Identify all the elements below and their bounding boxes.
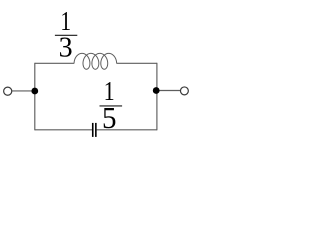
capacitor C1 plate right bbox=[95, 123, 97, 137]
svg-text:3: 3 bbox=[59, 33, 73, 64]
wire bottom-left segment bbox=[35, 129, 92, 131]
capacitor C1 plate left bbox=[92, 123, 94, 137]
label C value fraction bar bbox=[100, 105, 123, 107]
wire top-left segment bbox=[35, 62, 74, 64]
wire right stub bbox=[157, 90, 184, 92]
terminal right open circle bbox=[180, 87, 188, 95]
wire right vertical bbox=[156, 63, 158, 131]
wire left vertical bbox=[34, 63, 36, 131]
node right junction dot bbox=[153, 87, 160, 94]
svg-text:5: 5 bbox=[102, 102, 116, 135]
wire bottom-right segment bbox=[97, 129, 157, 131]
wire top-right segment bbox=[117, 62, 157, 64]
wire left stub bbox=[9, 90, 35, 92]
terminal left open circle bbox=[4, 87, 12, 95]
inductor L1 coil bbox=[74, 53, 117, 69]
node left junction dot bbox=[31, 88, 38, 95]
label L value fraction bar bbox=[55, 34, 77, 36]
